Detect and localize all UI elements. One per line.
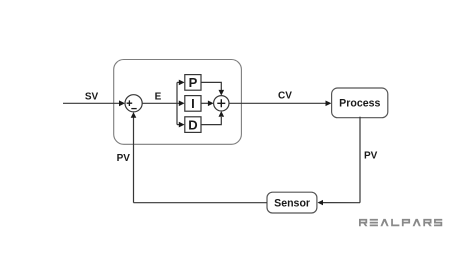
plus sign in U2 bbox=[217, 99, 225, 107]
wire D output bbox=[201, 117, 221, 125]
wire branch to P bbox=[177, 81, 180, 83]
REALPARS logo bbox=[359, 219, 442, 226]
logo letter R bbox=[423, 219, 431, 226]
block I bbox=[185, 96, 201, 112]
svg-text:Sensor: Sensor bbox=[274, 197, 310, 209]
wire CV bbox=[229, 102, 326, 104]
logo letter P bbox=[402, 219, 410, 226]
block Process bbox=[332, 88, 388, 118]
svg-text:I: I bbox=[191, 96, 195, 111]
block P bbox=[185, 75, 201, 91]
arrowhead right into U2 bbox=[208, 101, 214, 107]
wire E from U1 to branch bbox=[142, 102, 179, 104]
arrowhead into I bbox=[179, 101, 185, 107]
logo letter A bbox=[380, 219, 388, 226]
svg-text:CV: CV bbox=[278, 91, 292, 102]
summing junction U2 bbox=[214, 96, 229, 111]
logo letter A bbox=[413, 219, 421, 226]
logo letter L bbox=[391, 219, 399, 226]
plus sign in U1 bbox=[127, 100, 133, 106]
branch vertical wire bbox=[176, 82, 178, 124]
wire branch to D bbox=[177, 124, 180, 126]
svg-text:PV: PV bbox=[117, 153, 131, 164]
wire feedback up to U1 bbox=[133, 117, 135, 203]
PID controller boundary box bbox=[114, 60, 242, 145]
svg-text:E: E bbox=[155, 92, 162, 103]
wire PV down from Process bbox=[359, 117, 361, 203]
logo letter S bbox=[434, 219, 442, 226]
arrowhead up into U2 bbox=[219, 111, 225, 117]
logo letter R bbox=[359, 219, 367, 226]
svg-text:SV: SV bbox=[85, 92, 99, 103]
arrowhead down into summing junction U2 bbox=[219, 90, 225, 96]
logo letter E bbox=[370, 219, 378, 226]
block D bbox=[185, 117, 201, 133]
arrowhead into Process bbox=[326, 101, 332, 107]
summing junction U1 bbox=[125, 95, 142, 112]
svg-text:P: P bbox=[189, 75, 198, 90]
block Sensor bbox=[267, 192, 317, 213]
arrowhead up into U1 bbox=[131, 112, 137, 118]
wire feedback to Sensor bbox=[322, 202, 361, 204]
wire I output bbox=[201, 102, 209, 104]
arrowhead left into Sensor bbox=[318, 200, 324, 205]
arrowhead into summing junction U1 bbox=[119, 100, 125, 106]
wire SV input bbox=[63, 102, 120, 104]
wire P output bbox=[201, 82, 221, 90]
arrowhead into D bbox=[179, 122, 185, 128]
wire feedback left bbox=[134, 202, 268, 204]
minus sign in U1 bbox=[131, 108, 136, 110]
svg-text:D: D bbox=[188, 117, 197, 132]
svg-text:Process: Process bbox=[339, 98, 380, 110]
svg-text:PV: PV bbox=[364, 151, 378, 162]
arrowhead into P bbox=[179, 80, 185, 86]
